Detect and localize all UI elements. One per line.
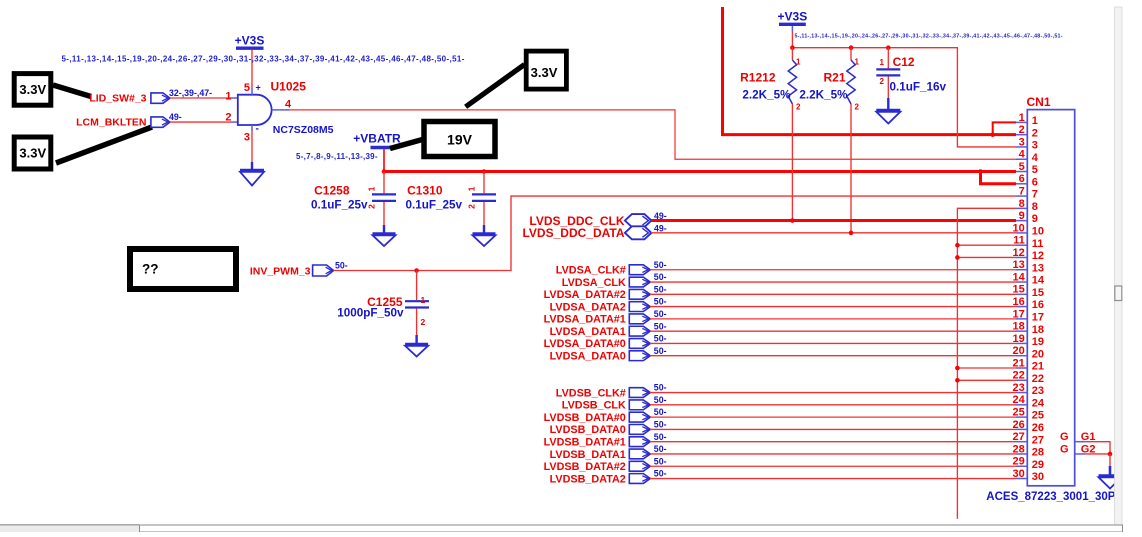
UI scrollbar thumb: [1115, 286, 1122, 301]
svg-text:CN1: CN1: [1027, 95, 1051, 109]
svg-text:5: 5: [1032, 164, 1038, 176]
refdes U1025: [271, 80, 307, 94]
port LVDSA_CLK#: [556, 265, 651, 277]
ground below C1310: [473, 234, 496, 247]
svg-text:LVDSB_CLK#: LVDSB_CLK#: [556, 387, 626, 399]
wire LVDSB_DATA#1 to CN1 pin 27: [650, 441, 1016, 443]
CN1 pin 8 stub: [1016, 207, 1027, 209]
R21 pin numbers: [855, 58, 860, 112]
svg-text:2: 2: [1019, 124, 1025, 136]
resistor R1212: [788, 48, 796, 221]
junction: [482, 169, 487, 174]
net label 49-: [654, 211, 667, 221]
svg-text:13: 13: [1013, 259, 1025, 271]
callout line: [466, 65, 525, 107]
CN1 pin 22 stub: [1016, 379, 1027, 381]
CN1 pin 11 number: [1013, 235, 1043, 250]
power symbol +V3S (left): [235, 34, 265, 49]
CN1 pin 30 stub: [1016, 478, 1027, 480]
wire V3S stub: [791, 32, 793, 48]
svg-text:12: 12: [1032, 250, 1044, 262]
svg-text:28: 28: [1013, 443, 1025, 455]
port LVDSA_DATA#1: [544, 314, 651, 326]
port LVDSB_DATA#0: [544, 412, 651, 424]
CN1 pin 10 number: [1013, 222, 1045, 237]
svg-text:9: 9: [1032, 213, 1038, 225]
svg-text:2: 2: [880, 77, 885, 86]
svg-text:C1258: C1258: [314, 184, 350, 198]
svg-text:2: 2: [467, 204, 477, 209]
CN1 pin 7 number: [1019, 185, 1038, 200]
svg-text:17: 17: [1032, 311, 1044, 323]
C12 labels: [890, 55, 947, 94]
svg-text:10: 10: [1013, 222, 1025, 234]
R1212 labels: [740, 71, 791, 102]
port LVDSA_DATA0: [550, 351, 651, 363]
svg-text:LVDSB_DATA2: LVDSB_DATA2: [550, 473, 626, 485]
net label 50-: [654, 383, 667, 393]
svg-text:1: 1: [367, 186, 377, 191]
net label 50-: [335, 261, 348, 271]
svg-text:4: 4: [285, 99, 292, 111]
svg-text:LVDSA_DATA#2: LVDSA_DATA#2: [544, 289, 626, 301]
svg-text:2: 2: [421, 317, 426, 327]
svg-text:17: 17: [1013, 308, 1025, 320]
junction: [849, 231, 854, 236]
CN1 pin 15 stub: [1016, 293, 1027, 295]
junction: [955, 243, 960, 248]
port LVDSB_DATA2: [550, 473, 651, 485]
ground below gate: [240, 170, 264, 186]
svg-text:2: 2: [855, 102, 860, 111]
svg-text:LVDS_DDC_DATA: LVDS_DDC_DATA: [522, 226, 624, 240]
CN1 pin 24 stub: [1016, 404, 1027, 406]
svg-text:3: 3: [1019, 136, 1025, 148]
callout box 3.3V top-right: [526, 51, 566, 89]
svg-text:LVDSB_DATA#0: LVDSB_DATA#0: [544, 412, 626, 424]
ground below C1258: [373, 234, 396, 247]
resistor R21: [847, 48, 855, 233]
wire LVDSB_DATA0 to CN1 pin 26: [650, 428, 1016, 430]
svg-text:2: 2: [796, 102, 801, 111]
svg-text:25: 25: [1032, 410, 1044, 422]
callout line: [56, 127, 152, 163]
svg-text:G: G: [1060, 431, 1069, 443]
svg-text:50-: 50-: [654, 456, 667, 466]
svg-text:24: 24: [1032, 397, 1045, 409]
wire ground bus to CN1 pin 8: [957, 208, 1016, 519]
net label 49-: [654, 223, 667, 233]
capacitor C12: [876, 48, 900, 110]
wire LVDSB_DATA1 to CN1 pin 28: [650, 453, 1016, 455]
CN1 pin 14 stub: [1016, 281, 1027, 283]
svg-text:LVDSA_DATA#1: LVDSA_DATA#1: [544, 314, 626, 326]
svg-text:4: 4: [1019, 149, 1026, 161]
CN1 pin 1 stub: [1016, 121, 1027, 123]
callout box ??: [130, 249, 236, 289]
CN1 pin 25 number: [1013, 407, 1045, 422]
port LVDSA_DATA1: [550, 326, 651, 338]
svg-text:LID_SW#_3: LID_SW#_3: [89, 93, 146, 105]
CN1 pin G1 stub: [1060, 431, 1096, 443]
svg-text:30: 30: [1032, 471, 1044, 483]
CN1 pin 23 number: [1013, 382, 1045, 397]
net label 50-: [654, 297, 667, 307]
CN1 pin 9 stub: [1016, 220, 1027, 222]
CN1 pin 17 number: [1013, 308, 1045, 323]
CN1 pin 5 number: [1019, 161, 1038, 176]
capacitor C1258: [372, 172, 396, 234]
wire LVDSA_DATA2 to CN1 pin 16: [650, 306, 1016, 308]
junction: [382, 169, 387, 174]
svg-text:6: 6: [1019, 173, 1025, 185]
port LID_SW#_3: [89, 93, 170, 105]
svg-text:+VBATR: +VBATR: [353, 132, 401, 146]
svg-text:+: +: [256, 83, 261, 93]
port INV_PWM_3: [250, 265, 334, 278]
port LVDSB_CLK#: [556, 387, 651, 399]
svg-text:LVDSA_DATA#0: LVDSA_DATA#0: [544, 338, 626, 350]
CN1 pin 18 number: [1013, 321, 1045, 336]
capacitor C1255: [405, 271, 429, 345]
svg-text:3.3V: 3.3V: [19, 82, 46, 97]
net label 32-,39-,47-: [169, 88, 212, 98]
junction: [790, 218, 795, 223]
port LVDSB_DATA0: [550, 424, 651, 436]
connector CN1 title: [1027, 95, 1051, 109]
R21 labels: [799, 71, 848, 102]
svg-text:18: 18: [1032, 324, 1044, 336]
R1212 pin numbers: [796, 58, 801, 112]
CN1 pin 22 number: [1013, 370, 1045, 385]
svg-text:1: 1: [880, 58, 885, 67]
connector CN1 box: [1027, 110, 1074, 486]
svg-text:LVDSA_DATA0: LVDSA_DATA0: [550, 351, 626, 363]
junction: [990, 132, 995, 137]
net label 50-: [654, 395, 667, 405]
svg-text:16: 16: [1032, 299, 1044, 311]
wire LVDS_DDC_DATA to CN1 pin 10: [651, 232, 1016, 234]
CN1 pin 20 number: [1013, 345, 1045, 360]
UI bottom scrollbar panel: [140, 525, 1123, 532]
svg-text:23: 23: [1032, 385, 1044, 397]
port LCM_BKLTEN: [76, 117, 170, 129]
wire down to ground: [1109, 454, 1111, 475]
svg-text:1: 1: [1032, 115, 1038, 127]
CN1 pin 30 number: [1013, 468, 1045, 483]
svg-text:R21: R21: [823, 71, 845, 85]
CN1 pin 11 stub: [1016, 244, 1027, 246]
svg-text:50-: 50-: [654, 469, 667, 479]
svg-text:1: 1: [467, 186, 477, 191]
wire G2 to ground: [1086, 453, 1110, 455]
svg-text:5: 5: [1019, 161, 1025, 173]
CN1 pin 24 number: [1013, 394, 1045, 409]
port LVDSB_DATA#1: [544, 436, 651, 448]
net label 50-: [654, 260, 667, 270]
AND gate U1025 body: [238, 95, 272, 125]
CN1 pin 13 number: [1013, 259, 1045, 274]
svg-text:12: 12: [1013, 247, 1025, 259]
svg-text:27: 27: [1032, 434, 1044, 446]
junction: [886, 45, 891, 50]
net label 50-: [654, 444, 667, 454]
svg-text:50-: 50-: [654, 309, 667, 319]
junction: [978, 169, 983, 174]
svg-text:+V3S: +V3S: [778, 10, 808, 24]
net index text below VBATR: [296, 152, 378, 161]
svg-text:C12: C12: [893, 55, 915, 69]
CN1 pin 21 number: [1013, 357, 1045, 372]
svg-text:50-: 50-: [654, 395, 667, 405]
net label 50-: [654, 456, 667, 466]
svg-text:13: 13: [1032, 262, 1044, 274]
CN1 pin 8 number: [1019, 198, 1038, 213]
svg-text:+V3S: +V3S: [235, 34, 265, 48]
CN1 pin 17 stub: [1016, 318, 1027, 320]
C12 pin numbers: [880, 58, 885, 86]
svg-text:26: 26: [1032, 422, 1044, 434]
wire gate output to CN1 pin 4: [290, 110, 1017, 159]
svg-text:3.3V: 3.3V: [19, 146, 46, 161]
svg-text:5-,7-,8-,9-,11-,13-,39-: 5-,7-,8-,9-,11-,13-,39-: [296, 152, 378, 161]
svg-text:26: 26: [1013, 419, 1025, 431]
wire LVDSA_CLK# to CN1 pin 13: [650, 269, 1016, 271]
port LVDSA_DATA2: [550, 301, 651, 313]
svg-text:14: 14: [1032, 275, 1045, 287]
svg-text:15: 15: [1013, 284, 1025, 296]
svg-text:1: 1: [796, 58, 801, 67]
net label 50-: [654, 309, 667, 319]
svg-text:LVDSB_DATA#2: LVDSB_DATA#2: [544, 461, 626, 473]
net label 50-: [654, 284, 667, 294]
UI bottom-left status area: [0, 525, 139, 532]
svg-text:29: 29: [1032, 459, 1044, 471]
svg-text:7: 7: [1019, 185, 1025, 197]
net label 50-: [654, 321, 667, 331]
svg-text:??: ??: [142, 262, 159, 277]
svg-text:20: 20: [1013, 345, 1025, 357]
wire branch to CN1 pin 6: [981, 172, 1017, 184]
svg-text:27: 27: [1013, 431, 1025, 443]
svg-text:25: 25: [1013, 407, 1025, 419]
port LVDS_DDC_CLK: [529, 214, 651, 228]
svg-text:18: 18: [1013, 321, 1025, 333]
CN1 pin 29 number: [1013, 456, 1045, 471]
junction: [790, 45, 795, 50]
svg-text:LVDSB_CLK: LVDSB_CLK: [562, 400, 626, 412]
svg-text:7: 7: [1032, 189, 1038, 201]
gate pin 3 stub: [244, 124, 259, 144]
wire branch to CN1 pin 11: [957, 244, 1016, 246]
CN1 pin 23 stub: [1016, 392, 1027, 394]
junction: [414, 268, 419, 273]
svg-text:2.2K_5%: 2.2K_5%: [799, 89, 848, 102]
wire LVDSB_DATA#0 to CN1 pin 25: [650, 416, 1016, 418]
net label 49-: [169, 112, 182, 122]
port LVDSB_DATA1: [550, 449, 651, 461]
svg-text:11: 11: [1032, 238, 1044, 250]
CN1 pin 29 stub: [1016, 465, 1027, 467]
svg-text:INV_PWM_3: INV_PWM_3: [250, 266, 311, 278]
C1310 pin numbers rotated: [467, 186, 477, 209]
capacitor C1310: [472, 172, 496, 234]
svg-text:LVDSB_DATA#1: LVDSB_DATA#1: [544, 436, 626, 448]
svg-text:22: 22: [1032, 373, 1044, 385]
svg-text:C1310: C1310: [407, 184, 443, 198]
CN1 pin 19 number: [1013, 333, 1045, 348]
port LVDSA_DATA#2: [544, 289, 651, 301]
wire INV_PWM to CN1 pin 7: [334, 196, 1016, 270]
svg-text:2: 2: [367, 204, 377, 209]
svg-text:1: 1: [1019, 112, 1025, 124]
part number ACES_87223_3001_30P: [986, 491, 1115, 503]
svg-text:16: 16: [1013, 296, 1025, 308]
svg-text:50-: 50-: [654, 284, 667, 294]
CN1 pin 12 stub: [1016, 256, 1027, 258]
svg-text:50-: 50-: [335, 261, 348, 271]
CN1 pin 9 number: [1019, 210, 1038, 225]
net index text top-right: [795, 34, 1063, 40]
CN1 pin 1 number: [1019, 112, 1038, 127]
UI right margin cover: [1115, 0, 1142, 532]
svg-text:0.1uF_25v: 0.1uF_25v: [405, 199, 462, 212]
wire branch to CN1 pin 21: [957, 367, 1016, 369]
CN1 pin 28 number: [1013, 443, 1045, 458]
svg-text:LVDSA_DATA2: LVDSA_DATA2: [550, 301, 626, 313]
svg-text:49-: 49-: [654, 223, 667, 233]
CN1 pin 21 stub: [1016, 367, 1027, 369]
CN1 pin 6 number: [1019, 173, 1038, 188]
svg-text:2: 2: [225, 111, 231, 123]
wire VBATR stub: [383, 149, 385, 171]
wire LCM_BKLTEN to gate pin 2: [170, 121, 238, 123]
svg-text:21: 21: [1013, 357, 1025, 369]
junction: [955, 255, 960, 260]
CN1 pin 3 stub: [1016, 146, 1027, 148]
svg-text:15: 15: [1032, 287, 1044, 299]
port LVDS_DDC_DATA: [522, 226, 651, 240]
svg-text:U1025: U1025: [271, 80, 307, 94]
svg-text:LVDSB_DATA0: LVDSB_DATA0: [550, 424, 626, 436]
wire gate pin3 to ground: [251, 131, 253, 170]
CN1 pin 20 stub: [1016, 355, 1027, 357]
svg-text:LVDSB_DATA1: LVDSB_DATA1: [550, 449, 626, 461]
CN1 pin 28 stub: [1016, 453, 1027, 455]
svg-text:23: 23: [1013, 382, 1025, 394]
CN1 pin 13 stub: [1016, 269, 1027, 271]
svg-text:5-,11-,13-,14-,15-,19-,20-,24-: 5-,11-,13-,14-,15-,19-,20-,24-,26-,27-,2…: [62, 55, 465, 64]
CN1 pin 3 number: [1019, 136, 1038, 151]
wire LVDSB_DATA#2 to CN1 pin 29: [650, 465, 1016, 467]
svg-text:50-: 50-: [654, 383, 667, 393]
CN1 pin 5 stub: [1016, 171, 1027, 173]
svg-text:8: 8: [1019, 198, 1025, 210]
svg-text:3: 3: [1032, 140, 1038, 152]
wire LVDSA_DATA1 to CN1 pin 18: [650, 330, 1016, 332]
svg-text:5-,11-,13-,14-,15-,19-,20-,24-: 5-,11-,13-,14-,15-,19-,20-,24-,26-,27-,2…: [795, 34, 1063, 40]
svg-text:LCM_BKLTEN: LCM_BKLTEN: [76, 117, 146, 129]
power symbol +V3S (top): [778, 10, 808, 32]
port LVDSA_DATA#0: [544, 338, 651, 350]
svg-text:8: 8: [1032, 201, 1038, 213]
svg-text:50-: 50-: [654, 321, 667, 331]
svg-text:50-: 50-: [654, 432, 667, 442]
C1310 labels: [405, 184, 462, 212]
svg-text:19: 19: [1013, 333, 1025, 345]
svg-text:50-: 50-: [654, 272, 667, 282]
CN1 pin 10 stub: [1016, 232, 1027, 234]
svg-text:2: 2: [1032, 127, 1038, 139]
svg-text:10: 10: [1032, 226, 1044, 238]
CN1 pin 2 stub: [1016, 134, 1027, 136]
svg-text:24: 24: [1013, 394, 1026, 406]
CN1 pin 2 number: [1019, 124, 1038, 139]
svg-text:14: 14: [1013, 271, 1026, 283]
svg-text:32-,39-,47-: 32-,39-,47-: [169, 88, 212, 98]
wire V3S rail to CN1 pin 3: [792, 48, 1016, 147]
gate output pin 4 stub: [272, 99, 292, 111]
svg-text:50-: 50-: [654, 444, 667, 454]
junction: [955, 366, 960, 371]
pin number 2: [225, 111, 231, 123]
pin number 1: [225, 91, 231, 103]
callout line: [390, 139, 426, 149]
wire LVDSA_DATA0 to CN1 pin 20: [650, 355, 1016, 357]
C1255 labels: [337, 295, 404, 320]
svg-text:1: 1: [421, 295, 426, 305]
svg-text:G: G: [1060, 443, 1069, 455]
CN1 pin 16 stub: [1016, 306, 1027, 308]
UI scrollbar track: [1115, 7, 1123, 532]
wire LVDSA_DATA#2 to CN1 pin 15: [650, 293, 1016, 295]
wire LVDSB_DATA2 to CN1 pin 30: [650, 478, 1016, 480]
callout box 19V: [424, 122, 495, 157]
svg-text:29: 29: [1013, 456, 1025, 468]
CN1 pin 27 stub: [1016, 441, 1027, 443]
svg-text:28: 28: [1032, 447, 1044, 459]
svg-text:1: 1: [855, 58, 860, 67]
net label 50-: [654, 346, 667, 356]
net index text top-left: [62, 55, 465, 64]
svg-text:20: 20: [1032, 348, 1044, 360]
svg-text:50-: 50-: [654, 334, 667, 344]
CN1 pin 4 stub: [1016, 158, 1027, 160]
svg-text:5: 5: [244, 82, 250, 94]
wire branch to CN1 pin 22: [957, 379, 1016, 381]
wire LID_SW to gate pin 1: [170, 97, 238, 99]
svg-text:6: 6: [1032, 176, 1038, 188]
callout line: [53, 85, 91, 97]
svg-text:LVDSA_CLK#: LVDSA_CLK#: [556, 265, 626, 277]
C1255 pin numbers: [421, 295, 426, 327]
wire VBATR rail thick to CN1 pin 5: [384, 170, 1016, 173]
svg-text:4: 4: [1032, 152, 1039, 164]
CN1 pin 14 number: [1013, 271, 1045, 286]
svg-text:NC7SZ08M5: NC7SZ08M5: [273, 124, 334, 136]
svg-text:3.3V: 3.3V: [531, 65, 558, 80]
svg-text:11: 11: [1013, 235, 1025, 247]
CN1 pin 19 stub: [1016, 342, 1027, 344]
CN1 pin G2 stub: [1060, 443, 1096, 455]
C1258 pin numbers rotated: [367, 186, 377, 209]
svg-text:-: -: [256, 124, 259, 135]
svg-text:R1212: R1212: [740, 71, 776, 85]
svg-text:3: 3: [244, 132, 250, 144]
wire LVDSA_DATA#1 to CN1 pin 17: [650, 318, 1016, 320]
net label 50-: [654, 420, 667, 430]
wire LVDSB_CLK# to CN1 pin 23: [650, 392, 1016, 394]
